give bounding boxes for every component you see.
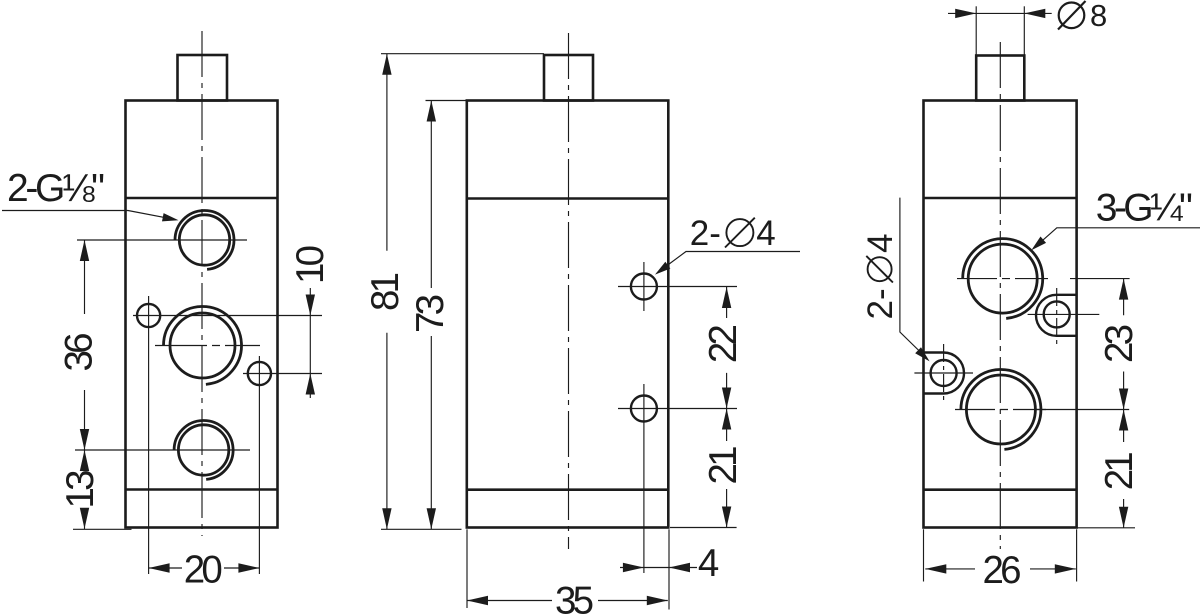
svg-text:20: 20 [184,549,223,592]
label 2-d4 right rotated [861,233,900,319]
svg-text:3-G¼": 3-G¼" [1096,187,1193,230]
center line vertical middle view [568,33,570,549]
body section line upper [126,197,278,200]
port P2 inner circle [170,313,235,378]
dim line 20 [149,567,260,569]
svg-text:13: 13 [59,470,102,509]
diameter symbol slash (2-d4 right) [866,256,893,283]
ext line bottom left for 13 [73,528,132,530]
center cross P2 [155,345,260,347]
mounting hole H1 left [137,304,160,327]
svg-text:36: 36 [58,333,101,372]
leader arrow 3-G1/4 [1029,237,1047,254]
arrows 20 dim [149,563,170,572]
arrows 10 dim (outside) [306,295,315,316]
ext line 21 bottom (body bottom right) [670,527,737,529]
leader 2-d4 middle [657,252,800,274]
diameter symbol circle (2-d4 middle) [726,219,753,246]
port P1 inner circle [179,215,229,265]
hole left (d4) [931,360,957,386]
arrows 36 dim [80,240,89,261]
H2 horizontal line + ext to 10 dim [243,373,322,375]
port big bottom inner circle [966,375,1035,444]
dim line 81 [386,54,388,530]
svg-text:2-G⅛": 2-G⅛" [7,167,105,210]
dim line 36 [84,240,86,450]
svg-text:21: 21 [1098,451,1141,490]
ext top 81 [381,53,544,55]
port P3 inner circle [178,425,228,475]
dim line 26 [925,568,1076,570]
dim line 4 [620,567,697,569]
hole lower middle [631,396,657,422]
svg-text:10: 10 [289,245,332,284]
svg-text:23: 23 [1098,324,1141,363]
svg-text:8: 8 [1090,0,1107,33]
hole upper cross vertical [643,262,645,311]
svg-text:4: 4 [861,233,900,252]
H1 horizontal line + ext to 10 dim [133,315,322,317]
dim line 10 [309,288,311,398]
body outline left view [126,101,278,528]
boss right hole [1036,295,1077,336]
arrows 23 [1119,279,1128,300]
hole upper middle [631,274,657,300]
svg-text:73: 73 [409,294,452,333]
svg-text:4: 4 [756,214,775,253]
section line lower right view [924,488,1077,491]
svg-text:2-: 2- [690,214,721,253]
section line lower middle [467,488,669,491]
leader arrow 2-G1/8 [162,213,179,224]
arrows 35 [467,596,488,605]
boss left hole [924,353,964,394]
port P2 thread arc [164,306,242,384]
top block left view [178,55,228,101]
leader 3-G1/4 [1034,228,1200,249]
arrows 26 [925,564,946,573]
diameter symbol slash [725,218,755,248]
dim line d8 [948,12,1052,14]
diameter symbol circle (d8) [1059,3,1085,29]
diameter symbol slash (d8) [1058,1,1086,30]
center cross P3 + ext [75,449,250,451]
port P1 thread arc [175,211,234,270]
svg-text:4: 4 [698,542,719,585]
H1 vertical ext to 20 dim [148,296,150,574]
svg-text:2-: 2- [861,288,900,319]
port big bottom thread arc [961,370,1041,450]
ext line 35 left [466,529,468,608]
leader 2-d4 right [900,198,927,358]
arrows 73 [427,101,436,122]
ext 26 left [923,529,925,581]
arrows 13 dim [80,450,89,471]
arrows 81 [382,54,391,75]
svg-text:26: 26 [983,549,1022,592]
port big top thread arc [963,239,1043,319]
center line vertical right view [999,42,1001,549]
arrows d8 (outside) [955,9,976,18]
cross big top + ext to 23 [957,278,1048,280]
svg-text:81: 81 [364,272,407,311]
label d8: drawn diameter symbol + 8 [1058,1,1086,30]
mounting hole H2 right [248,362,271,385]
ext d8 right [1023,6,1025,54]
port P3 thread arc [174,421,233,480]
H2 vertical ext to 20 dim [258,356,260,574]
dim line 22 [726,287,728,409]
body outline middle view [467,101,669,528]
hole lower cross vertical + ext to 4 dim [643,384,645,573]
svg-text:21: 21 [702,446,745,485]
body section line lower [126,488,278,491]
dim line 73 [430,101,432,530]
leader 2-G1/8 [2,211,176,220]
arrows 4 (outside) [623,563,644,572]
svg-text:35: 35 [555,580,594,615]
ext line 4 right / 35 right [668,529,670,609]
leader arrow 2-d4 right [915,347,932,364]
cross right hole [1028,313,1100,315]
section line upper middle [467,197,669,200]
dim line 21 middle [726,409,728,528]
dim line 21 right [1123,410,1125,528]
center line vertical left view [201,31,203,536]
dim line 23 [1123,279,1125,410]
ext 26 right [1076,529,1078,581]
top block middle view [544,55,593,101]
section line upper right view [924,197,1077,200]
top block right view [976,56,1024,101]
cross left hole [914,372,973,374]
ext bottom 81/73 [381,528,462,530]
ext top 73 [426,100,467,102]
hole upper cross horizontal + ext to 22 [618,286,737,288]
diameter symbol circle (2-d4 right) [868,257,892,281]
arrows 21 middle [722,409,731,430]
dim line 13 [84,450,86,529]
port big top inner circle [968,244,1037,313]
ext d8 left [975,6,977,54]
cross big bottom + ext [955,409,1046,411]
hole right (d4) [1044,301,1070,327]
arrows 22 [722,287,731,308]
arrows 21 right [1119,410,1128,431]
hole lower cross horizontal + ext [618,408,737,410]
leader arrow 2-d4 middle [653,262,671,278]
body outline right view [924,101,1077,528]
center cross P1 + ext for 36 dim [77,239,247,241]
ext bottom 21 right [1077,527,1135,529]
dim line 35 [467,600,668,602]
svg-text:22: 22 [702,324,745,363]
